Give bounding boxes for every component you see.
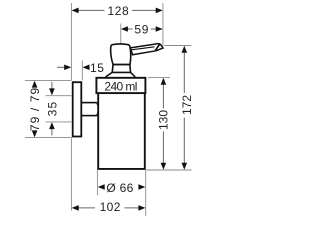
wire: wall plane extension line (lower) bbox=[70, 138, 72, 211]
dimension 35 bbox=[45, 82, 59, 136]
wire: plate front extension line bbox=[81, 61, 83, 81]
pump neck bbox=[112, 65, 130, 73]
svg-text:Ø 66: Ø 66 bbox=[106, 181, 133, 195]
svg-text:240 ml: 240 ml bbox=[104, 79, 136, 93]
svg-text:128: 128 bbox=[107, 4, 129, 18]
dimension diameter 66 bbox=[98, 181, 146, 195]
holder arm front face bbox=[97, 103, 99, 116]
wire: lever tip extension line bbox=[162, 3, 164, 46]
lever inner edge bbox=[132, 47, 155, 50]
wire: bottle right extension line bbox=[145, 170, 147, 216]
dimension 59 bbox=[121, 22, 163, 36]
wall plate (side view) bbox=[73, 82, 82, 136]
wire: pump left extension line bbox=[120, 24, 122, 44]
svg-text:35: 35 bbox=[45, 101, 59, 117]
bottle label band 240 ml bbox=[96, 78, 145, 93]
wire: lever top extension line bbox=[165, 45, 192, 47]
wire: lower hole extension line bbox=[46, 121, 72, 123]
wire: bottle top extension line bbox=[148, 76, 170, 78]
svg-text:79 / 79: 79 / 79 bbox=[28, 87, 42, 131]
holder arm top edge bbox=[82, 102, 97, 104]
dimension 172 bbox=[180, 46, 194, 170]
bottle body bbox=[98, 94, 145, 169]
dimension 79 / 79 bbox=[28, 81, 42, 138]
dimension 128 bbox=[72, 4, 163, 18]
dimension 15 bbox=[57, 61, 105, 75]
wire: plate top extension line bbox=[25, 79, 71, 81]
wire: bottle left extension line bbox=[96, 170, 98, 195]
wire: plate bottom extension line bbox=[25, 137, 71, 139]
svg-text:15: 15 bbox=[90, 61, 105, 75]
wire: wall plane extension line (upper) bbox=[70, 3, 72, 80]
svg-text:102: 102 bbox=[100, 200, 121, 214]
svg-text:172: 172 bbox=[180, 95, 194, 115]
wire: upper hole extension line bbox=[46, 95, 72, 97]
dimension 130 bbox=[156, 78, 170, 170]
holder arm bottom edge bbox=[82, 115, 97, 117]
wire: bottle bottom extension line bbox=[146, 169, 191, 171]
lever tip facet bbox=[155, 44, 159, 50]
pump skirt bbox=[106, 72, 136, 77]
svg-text:130: 130 bbox=[156, 110, 170, 130]
pump cap bbox=[111, 44, 131, 64]
svg-text:59: 59 bbox=[134, 22, 149, 36]
pump lever bbox=[130, 44, 163, 55]
dimension 102 bbox=[72, 200, 146, 214]
